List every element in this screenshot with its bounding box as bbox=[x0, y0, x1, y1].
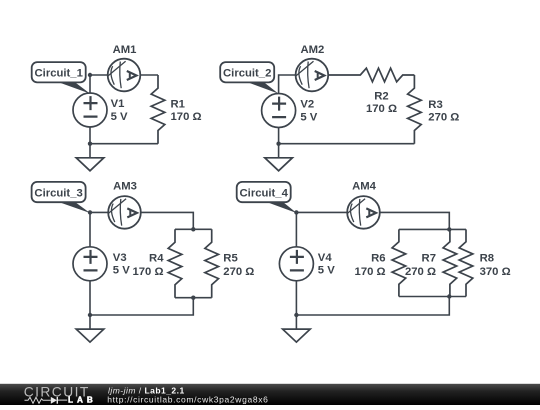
svg-text:Circuit_4: Circuit_4 bbox=[240, 188, 289, 200]
wire V3 bottom bbox=[89, 281, 91, 315]
wire V4 top bbox=[295, 212, 297, 246]
voltage source V4 5 V bbox=[279, 247, 335, 281]
svg-text:LAB: LAB bbox=[68, 396, 97, 405]
node Circuit_3 bbox=[88, 210, 92, 214]
wire AM1 to R1 top bbox=[140, 74, 158, 76]
svg-text:AM2: AM2 bbox=[300, 44, 324, 56]
ammeter AM3 bbox=[108, 181, 141, 229]
svg-text:R3: R3 bbox=[428, 99, 442, 111]
resistor R7 bbox=[405, 229, 457, 296]
resistor R1 bbox=[151, 75, 201, 144]
svg-text:270 Ω: 270 Ω bbox=[223, 266, 254, 278]
wire V2 bottom bbox=[278, 128, 280, 144]
svg-text:R1: R1 bbox=[171, 98, 185, 110]
node flag Circuit_1 bbox=[32, 62, 90, 94]
junction R6-R7-R8 bottom bbox=[447, 294, 451, 298]
wire bottom rail c1 bbox=[90, 143, 158, 145]
junction R4-R5 bottom bbox=[191, 296, 195, 300]
wire parallel bottom to rail c4 bbox=[296, 297, 449, 316]
wire bottom rail c2 bbox=[279, 143, 415, 145]
wire V1 top bbox=[89, 75, 91, 93]
svg-text:http://circuitlab.com/cwk3pa2w: http://circuitlab.com/cwk3pa2wga8x6 bbox=[107, 394, 268, 404]
wire top rail c4 bbox=[399, 228, 466, 230]
svg-text:V2: V2 bbox=[300, 99, 314, 111]
junction c4 ground node bbox=[294, 313, 298, 317]
node Circuit_1 bbox=[88, 73, 92, 77]
wire node to AM3 bbox=[90, 211, 108, 213]
svg-text:AM3: AM3 bbox=[113, 181, 137, 193]
svg-text:170 Ω: 170 Ω bbox=[355, 266, 386, 278]
junction c1 ground node bbox=[88, 142, 92, 146]
node flag Circuit_4 bbox=[237, 182, 297, 213]
resistor R8 bbox=[459, 229, 510, 296]
svg-text:V3: V3 bbox=[113, 252, 127, 264]
junction c2 ground node bbox=[276, 142, 280, 146]
svg-text:5 V: 5 V bbox=[111, 111, 128, 123]
ammeter AM1 bbox=[108, 44, 141, 91]
svg-text:R4: R4 bbox=[149, 253, 164, 265]
svg-text:AM4: AM4 bbox=[352, 181, 377, 193]
svg-text:5 V: 5 V bbox=[318, 265, 335, 277]
resistor R5 bbox=[205, 229, 254, 297]
node flag Circuit_3 bbox=[32, 182, 90, 213]
wire V1 bottom bbox=[89, 127, 91, 144]
svg-text:Circuit_1: Circuit_1 bbox=[35, 68, 83, 80]
svg-text:R2: R2 bbox=[374, 90, 388, 102]
resistor R6 bbox=[355, 229, 406, 296]
wire V3 top bbox=[89, 212, 91, 246]
svg-text:170 Ω: 170 Ω bbox=[366, 103, 397, 115]
svg-text:270 Ω: 270 Ω bbox=[405, 266, 436, 278]
svg-text:Circuit_2: Circuit_2 bbox=[223, 68, 271, 80]
ground bbox=[283, 315, 311, 342]
resistor R3 bbox=[408, 75, 460, 144]
ground bbox=[76, 144, 104, 171]
ammeter AM2 bbox=[296, 44, 329, 91]
voltage source V3 5 V bbox=[73, 247, 130, 281]
svg-text:V1: V1 bbox=[111, 98, 125, 110]
voltage source V1 5 V bbox=[73, 93, 128, 127]
svg-text:R6: R6 bbox=[371, 253, 385, 265]
node Circuit_4 bbox=[294, 210, 298, 214]
svg-text:5 V: 5 V bbox=[113, 265, 130, 277]
voltage source V2 5 V bbox=[262, 94, 318, 128]
svg-text:AM1: AM1 bbox=[113, 44, 137, 56]
wire bottom rail c3 bbox=[175, 297, 212, 299]
junction R6-R7-R8 top bbox=[447, 227, 451, 231]
svg-text:170 Ω: 170 Ω bbox=[171, 111, 202, 123]
junction R4-R5 top bbox=[191, 227, 195, 231]
ammeter AM4 bbox=[347, 181, 380, 229]
wire V4 bottom bbox=[295, 281, 297, 315]
resistor R2 bbox=[328, 68, 414, 115]
wire top rail c3 bbox=[175, 228, 212, 230]
wire node to AM4 bbox=[296, 211, 347, 213]
svg-text:270 Ω: 270 Ω bbox=[428, 111, 459, 123]
svg-text:V4: V4 bbox=[318, 252, 333, 264]
svg-text:R7: R7 bbox=[422, 253, 436, 265]
svg-text:170 Ω: 170 Ω bbox=[132, 266, 163, 278]
wire bottom rail c4 bbox=[399, 296, 466, 298]
wire parallel bottom to rail bbox=[90, 298, 193, 315]
svg-text:R5: R5 bbox=[223, 253, 237, 265]
node flag Circuit_2 bbox=[220, 62, 278, 94]
svg-text:5 V: 5 V bbox=[300, 111, 317, 123]
wire AM3 to parallel top bbox=[141, 212, 194, 229]
svg-text:370 Ω: 370 Ω bbox=[480, 266, 511, 278]
junction c3 ground node bbox=[88, 313, 92, 317]
ground bbox=[76, 315, 104, 342]
svg-text:Circuit_3: Circuit_3 bbox=[34, 188, 82, 200]
CircuitLab logo bbox=[24, 385, 97, 405]
wire node to AM1 bbox=[90, 74, 108, 76]
svg-text:R8: R8 bbox=[480, 253, 494, 265]
resistor R4 bbox=[132, 229, 181, 297]
ground bbox=[265, 144, 293, 171]
wire corner to AM2 bbox=[279, 75, 296, 93]
wire AM4 to parallel top bbox=[380, 212, 450, 229]
